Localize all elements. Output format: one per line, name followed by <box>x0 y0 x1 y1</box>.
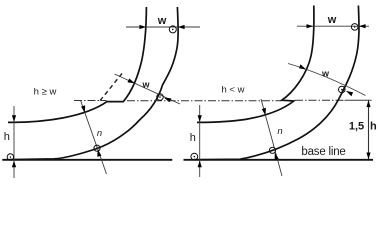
svg-text:h: h <box>370 121 377 133</box>
svg-text:n: n <box>97 128 102 139</box>
svg-text:w: w <box>141 80 150 90</box>
svg-text:h: h <box>190 132 196 144</box>
svg-text:w: w <box>157 15 167 27</box>
svg-text:w: w <box>321 69 330 79</box>
svg-text:n: n <box>277 126 282 137</box>
svg-text:base line: base line <box>301 146 345 158</box>
svg-text:1,5: 1,5 <box>349 121 364 133</box>
svg-text:w: w <box>327 14 337 26</box>
svg-text:h: h <box>4 131 10 143</box>
svg-text:h ≥ w: h ≥ w <box>34 87 57 98</box>
svg-text:h < w: h < w <box>222 85 245 96</box>
